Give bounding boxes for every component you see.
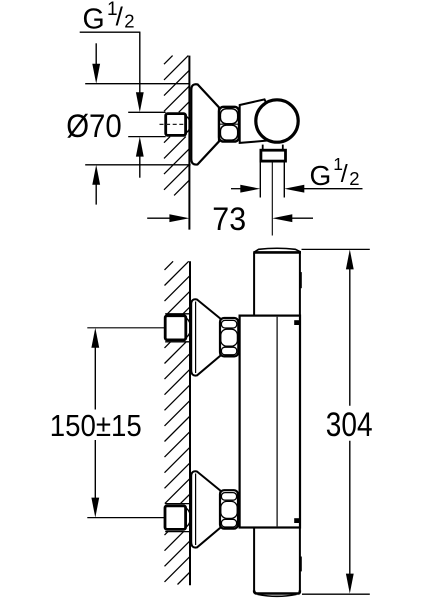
svg-text:G: G bbox=[83, 4, 105, 36]
dimension 150±15 (union spacing) bbox=[50, 328, 142, 518]
union square (upper) bbox=[165, 316, 186, 340]
valve ball body (top view) bbox=[256, 100, 298, 142]
hex nut (top view) bbox=[219, 107, 239, 142]
svg-text:Ø70: Ø70 bbox=[66, 108, 122, 144]
escutcheon cone (top view) bbox=[191, 84, 219, 164]
body clip (top) bbox=[294, 320, 299, 325]
wall surface line (top view) bbox=[188, 56, 190, 230]
wall hole edges (upper union) bbox=[165, 313, 190, 315]
svg-text:304: 304 bbox=[326, 406, 373, 444]
connector body (top view) bbox=[240, 99, 268, 142]
svg-text:/: / bbox=[341, 160, 348, 188]
union cap lens bbox=[186, 116, 190, 133]
outlet flange nut bbox=[261, 150, 286, 161]
wall hatch (top view) bbox=[164, 56, 189, 196]
svg-text:2: 2 bbox=[349, 168, 359, 189]
union square (lower) bbox=[165, 506, 186, 530]
svg-text:2: 2 bbox=[124, 11, 134, 32]
thermostat body bbox=[240, 316, 300, 528]
dimension Ø70 (escutcheon diameter) bbox=[66, 43, 190, 204]
wall hole edges (lower union) bbox=[165, 503, 190, 505]
dimension 73 (wall to outlet centre) bbox=[147, 201, 313, 237]
body clip (bottom) bbox=[294, 518, 299, 523]
hex nut (upper) bbox=[220, 318, 238, 356]
svg-text:G: G bbox=[310, 160, 332, 191]
wall hatch (side view) bbox=[165, 261, 191, 584]
centerline upper union bbox=[87, 327, 164, 329]
wall hole edge / extension lines for top G1/2 bbox=[128, 111, 166, 113]
hex nut (lower) bbox=[220, 490, 238, 528]
label G 1/2 (outlet thread) with dimension arrows bbox=[231, 154, 363, 193]
svg-text:73: 73 bbox=[212, 201, 246, 237]
centerline lower union bbox=[87, 517, 164, 519]
escutcheon cone (upper) bbox=[191, 299, 220, 375]
svg-text:150±15: 150±15 bbox=[50, 408, 142, 443]
outlet neck bbox=[262, 145, 264, 151]
outlet pipe centerline bbox=[271, 162, 273, 236]
union square fitting (top view) bbox=[166, 114, 186, 136]
outlet pipe bbox=[259, 161, 261, 197]
upper knob cylinder bbox=[253, 248, 301, 315]
lower knob cylinder bbox=[254, 528, 301, 597]
dimension 304 (overall height) bbox=[302, 249, 373, 594]
centerline (top union) bbox=[160, 123, 185, 125]
label G 1/2 (wall union thread, top view) bbox=[80, 0, 144, 178]
escutcheon cone (lower) bbox=[191, 471, 220, 547]
svg-text:/: / bbox=[116, 2, 124, 32]
wall surface line (side view) bbox=[189, 261, 191, 585]
